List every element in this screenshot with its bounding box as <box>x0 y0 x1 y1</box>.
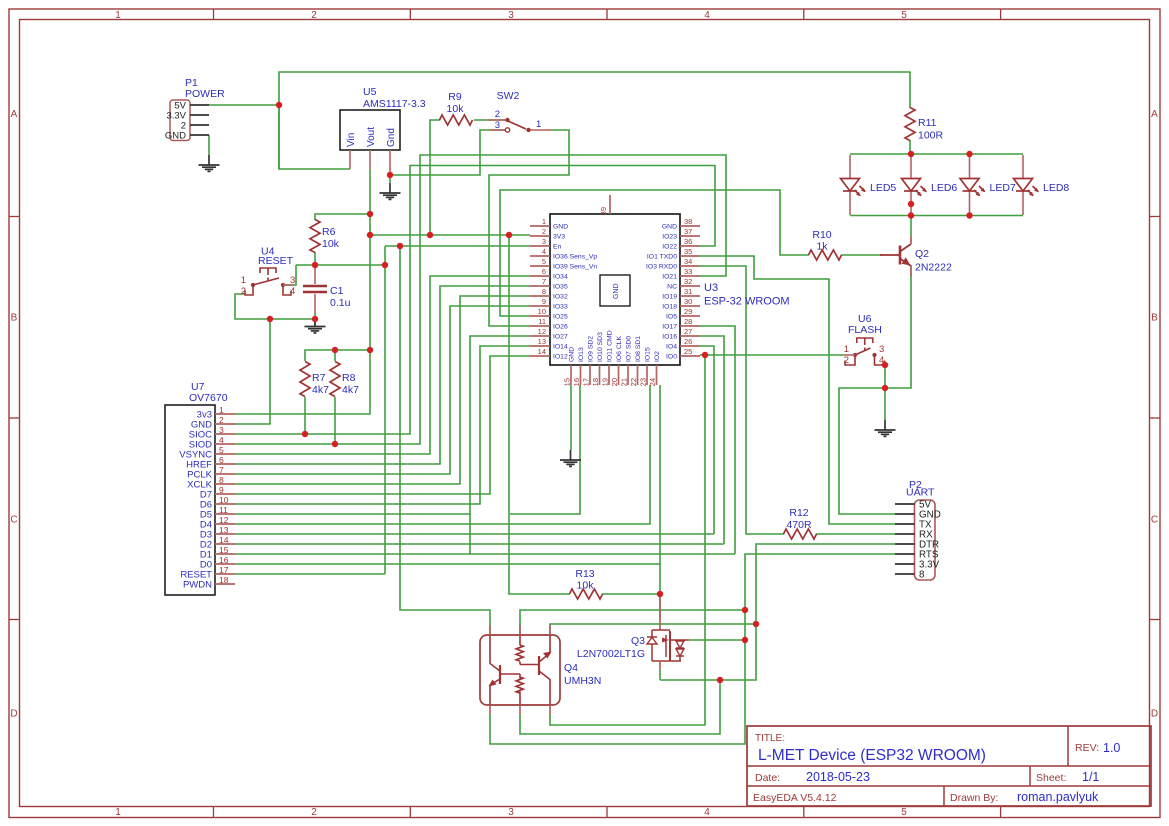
svg-text:30: 30 <box>684 297 692 306</box>
svg-text:3V3: 3V3 <box>553 234 565 241</box>
svg-text:2: 2 <box>311 10 317 21</box>
svg-text:IO9 SD2: IO9 SD2 <box>588 336 595 362</box>
svg-text:B: B <box>11 313 18 324</box>
svg-text:27: 27 <box>684 327 692 336</box>
transistor Q3 L2N7002LT1G <box>577 598 689 670</box>
resistor R9 10k <box>440 91 473 125</box>
svg-text:2: 2 <box>219 415 224 425</box>
wire 5V: P1 pin1 to junction <box>209 104 279 106</box>
svg-text:2N2222: 2N2222 <box>915 262 952 274</box>
wire En riser to Q4 top pin1 <box>400 246 490 635</box>
svg-text:15: 15 <box>563 378 572 386</box>
svg-text:IO21: IO21 <box>662 274 677 281</box>
svg-text:470R: 470R <box>786 519 812 531</box>
svg-text:TITLE:: TITLE: <box>755 733 785 744</box>
svg-text:3: 3 <box>219 425 224 435</box>
svg-text:Gnd: Gnd <box>386 128 397 147</box>
svg-text:SW2: SW2 <box>497 90 520 102</box>
svg-text:13: 13 <box>219 525 229 535</box>
svg-text:1: 1 <box>219 405 224 415</box>
svg-text:23: 23 <box>639 378 648 386</box>
svg-text:IO7 SD0: IO7 SD0 <box>626 336 633 362</box>
svg-text:C: C <box>1151 515 1158 526</box>
svg-text:IO36 Sens_Vp: IO36 Sens_Vp <box>553 254 597 261</box>
svg-text:34: 34 <box>684 257 692 266</box>
svg-text:7: 7 <box>219 465 224 475</box>
svg-text:9: 9 <box>542 297 546 306</box>
svg-text:12: 12 <box>219 515 229 525</box>
svg-text:IO23: IO23 <box>662 234 677 241</box>
svg-text:32: 32 <box>684 277 692 286</box>
capacitor C1 0.1u <box>303 285 351 309</box>
svg-text:1: 1 <box>241 275 246 286</box>
svg-text:1: 1 <box>542 217 546 226</box>
svg-text:4: 4 <box>290 286 295 297</box>
svg-text:R13: R13 <box>575 568 594 580</box>
svg-text:35: 35 <box>684 247 692 256</box>
svg-text:3: 3 <box>508 807 514 818</box>
switch U6 FLASH <box>843 313 885 366</box>
wire U5 Gnd node to SW2 pin3 net y=175 <box>390 130 505 175</box>
connector P1 POWER <box>165 77 225 142</box>
wire U6 pin4 riser to GND node <box>884 365 886 388</box>
svg-text:IO35: IO35 <box>553 284 568 291</box>
wire R9 left riser to 3V3 rail <box>430 120 440 235</box>
svg-text:R12: R12 <box>789 507 808 519</box>
wire RTS branch y=610 to Q4 top pin2 <box>520 610 745 635</box>
svg-text:18: 18 <box>591 378 600 386</box>
svg-text:7: 7 <box>542 277 546 286</box>
wire Q3 gate diodes to RTS riser <box>689 639 745 641</box>
svg-text:IO0: IO0 <box>666 354 677 361</box>
svg-text:IO34: IO34 <box>553 274 568 281</box>
svg-text:1: 1 <box>536 119 541 130</box>
svg-text:B: B <box>1151 313 1158 324</box>
wire D5 to IO27 riser <box>235 513 470 515</box>
wire R10 right lead to Q2 base <box>841 254 882 256</box>
node Vout/R6 top <box>367 211 373 217</box>
node LED bottom rail Q2 <box>908 212 914 218</box>
wire IO27 riser down <box>470 336 530 554</box>
svg-text:100R: 100R <box>918 130 944 142</box>
node IO0 to U6 <box>702 352 708 358</box>
wire C1 bottom lead <box>314 294 316 313</box>
svg-text:3: 3 <box>495 120 500 131</box>
wire DTR branch to Q4 top pin3 <box>550 624 756 635</box>
wire R8 bottom to SIOD <box>334 397 336 444</box>
svg-text:10k: 10k <box>447 103 465 115</box>
wire trunk IO21 to SIOD riser <box>235 155 726 444</box>
wire TXD0 to P2 TX <box>700 256 895 524</box>
wire C1 top lead <box>314 265 316 284</box>
svg-text:GND: GND <box>613 283 620 299</box>
svg-text:16: 16 <box>219 555 229 565</box>
wire U4 pin3 to RC rail <box>283 265 296 285</box>
svg-text:33: 33 <box>684 267 692 276</box>
wire trunk IO22 to SIOC riser <box>235 166 715 435</box>
ground for C1 <box>305 319 326 333</box>
svg-text:GND: GND <box>662 224 677 231</box>
wire Q3 source lead down <box>659 670 661 680</box>
svg-text:IO26: IO26 <box>553 324 568 331</box>
wire XCLK to IO32 <box>235 296 530 484</box>
node R8 top rail <box>332 347 338 353</box>
svg-text:24: 24 <box>648 378 657 386</box>
svg-text:12: 12 <box>538 327 546 336</box>
svg-text:5: 5 <box>901 807 907 818</box>
svg-text:4: 4 <box>219 435 224 445</box>
svg-text:0.1u: 0.1u <box>330 297 351 309</box>
svg-text:Q4: Q4 <box>564 662 578 674</box>
wire R7 R8 top rail <box>305 350 370 361</box>
wire R11 bottom to LED rail <box>909 140 911 154</box>
transistor Q2 2N2222 <box>880 236 952 276</box>
svg-text:4: 4 <box>704 10 710 21</box>
ground for U6/Q2/P2 GND net <box>875 420 896 436</box>
svg-text:IO19: IO19 <box>662 294 677 301</box>
LED6 <box>910 155 912 215</box>
svg-text:36: 36 <box>684 237 692 246</box>
wire Q2 emitter to GND node <box>885 274 911 388</box>
svg-text:29: 29 <box>684 307 692 316</box>
svg-text:IO14: IO14 <box>553 344 568 351</box>
svg-text:4: 4 <box>542 247 546 256</box>
svg-text:5: 5 <box>901 10 907 21</box>
LED5 <box>849 155 851 215</box>
svg-text:C: C <box>10 515 17 526</box>
wire SW2 pin1 to IO26 <box>489 130 569 326</box>
svg-text:3: 3 <box>542 237 546 246</box>
wire D4 to IO15 <box>235 385 650 524</box>
node ground rail U7 GND riser <box>267 316 273 322</box>
LED8 <box>1022 155 1024 215</box>
wire IO4 riser <box>700 346 714 534</box>
svg-text:10: 10 <box>538 307 546 316</box>
svg-text:L-MET Device (ESP32 WROOM): L-MET Device (ESP32 WROOM) <box>758 747 986 764</box>
resistor R11 100R <box>905 108 944 142</box>
connector U7 OV7670 <box>165 381 235 595</box>
svg-text:En: En <box>553 244 562 251</box>
wire PCLK to IO33 <box>235 306 530 474</box>
svg-text:14: 14 <box>219 535 229 545</box>
ground for ESP32 GND pin15 <box>560 450 581 466</box>
svg-text:EasyEDA V5.4.12: EasyEDA V5.4.12 <box>753 792 837 804</box>
svg-text:5: 5 <box>219 445 224 455</box>
svg-text:25: 25 <box>684 347 692 356</box>
svg-text:IO27: IO27 <box>553 334 568 341</box>
wire D3 to IO4 <box>235 533 714 535</box>
wire En riser to RC node rail <box>384 246 386 574</box>
node Q3 gate RTS <box>742 637 748 643</box>
svg-text:RESET: RESET <box>258 255 294 267</box>
wire P2 RTS riser down to Q4 bottom pin1 <box>490 554 895 744</box>
svg-text:GND: GND <box>165 131 186 142</box>
wire VSYNC to IO34 <box>235 276 530 454</box>
svg-text:6: 6 <box>542 267 546 276</box>
svg-text:18: 18 <box>219 575 229 585</box>
svg-text:1/1: 1/1 <box>1082 770 1099 784</box>
svg-text:8: 8 <box>542 287 546 296</box>
svg-text:NC: NC <box>667 284 677 291</box>
wire 3V3 drop to R13 left <box>509 235 570 594</box>
svg-text:1: 1 <box>844 344 849 355</box>
svg-text:D: D <box>10 709 17 720</box>
wire 3V3 rail to ESP32 pin2 <box>370 234 530 236</box>
wire IO17 riser <box>700 326 735 554</box>
svg-text:IO13: IO13 <box>578 347 585 362</box>
wire R6 top to Vout line <box>315 214 370 220</box>
wire R13 right to IO2 node <box>602 593 660 595</box>
node C1 bottom ground <box>312 316 318 322</box>
svg-text:13: 13 <box>538 337 546 346</box>
svg-text:LED7: LED7 <box>990 182 1016 194</box>
wire RXD0 down to R12 left <box>700 266 784 534</box>
svg-text:R8: R8 <box>342 372 356 384</box>
svg-text:LED6: LED6 <box>931 182 957 194</box>
svg-text:R9: R9 <box>448 91 462 103</box>
switch SW2 <box>487 90 552 132</box>
wire R6 bottom to RC rail <box>314 252 316 265</box>
svg-text:IO22: IO22 <box>662 244 677 251</box>
svg-text:R6: R6 <box>322 226 336 238</box>
svg-text:20: 20 <box>610 378 619 386</box>
svg-text:10: 10 <box>219 495 229 505</box>
svg-text:roman.pavlyuk: roman.pavlyuk <box>1017 790 1099 804</box>
svg-text:2: 2 <box>542 227 546 236</box>
svg-text:IO16: IO16 <box>662 334 677 341</box>
svg-text:PWDN: PWDN <box>183 580 212 591</box>
wire GND node to P2 GND <box>839 388 895 514</box>
svg-text:IO18: IO18 <box>662 304 677 311</box>
wire GND node to ground symbol <box>884 388 886 420</box>
node 3V3 rail start <box>367 232 373 238</box>
svg-text:4k7: 4k7 <box>342 384 359 396</box>
node RC rail En riser <box>382 262 388 268</box>
node Q3 source DTR rail <box>717 677 723 683</box>
wire 5V riser and top trunk to R11 <box>279 72 910 169</box>
wire U7 RESET pin17 to En riser <box>235 573 385 575</box>
node En riser junction <box>397 243 403 249</box>
wire IO0 riser down to Q4 <box>550 355 705 725</box>
svg-text:10k: 10k <box>322 238 340 250</box>
resistor R12 470R <box>784 507 817 539</box>
svg-text:2: 2 <box>844 355 849 366</box>
IC U3 ESP-32 WROOM <box>530 195 790 386</box>
svg-text:IO6 CLK: IO6 CLK <box>616 335 623 362</box>
wire U5 Gnd ground stub <box>389 175 391 183</box>
connector P2 UART <box>895 479 941 581</box>
svg-text:U3: U3 <box>704 282 718 294</box>
node 3V3 to R13 drop <box>506 232 512 238</box>
svg-text:2: 2 <box>241 286 246 297</box>
svg-text:Q2: Q2 <box>915 248 929 260</box>
svg-text:IO15: IO15 <box>645 347 652 362</box>
svg-text:IO2: IO2 <box>654 351 661 362</box>
svg-text:AMS1117-3.3: AMS1117-3.3 <box>363 98 426 110</box>
svg-text:IO12: IO12 <box>553 354 568 361</box>
resistor R8 4k7 <box>330 362 359 397</box>
wire LED bottom rail <box>850 215 1023 217</box>
svg-text:D: D <box>1151 709 1158 720</box>
node LED top rail R11 <box>908 151 914 157</box>
svg-text:Vin: Vin <box>346 133 357 147</box>
svg-text:2: 2 <box>495 109 500 120</box>
wire R12 right to P2 RX <box>816 533 895 535</box>
svg-text:14: 14 <box>538 347 546 356</box>
wire IO13 to R13 node <box>510 385 580 514</box>
LED7 <box>969 155 971 215</box>
svg-text:A: A <box>11 109 18 120</box>
wire IO0 to U6 pin1 <box>700 354 843 356</box>
svg-text:OV7670: OV7670 <box>189 392 228 404</box>
svg-text:1.0: 1.0 <box>1103 741 1120 755</box>
svg-text:16: 16 <box>572 378 581 386</box>
wire U7 GND pin2 riser <box>235 319 270 424</box>
svg-text:2018-05-23: 2018-05-23 <box>806 770 870 784</box>
svg-text:8: 8 <box>919 570 925 581</box>
svg-text:U5: U5 <box>363 86 377 98</box>
wire En rail to ESP32 pin3 <box>385 245 530 247</box>
svg-text:21: 21 <box>620 378 629 386</box>
wire Q2 collector riser <box>910 216 912 237</box>
svg-text:IO39 Sens_Vn: IO39 Sens_Vn <box>553 264 597 271</box>
svg-text:11: 11 <box>538 317 546 326</box>
svg-text:LED8: LED8 <box>1043 182 1069 194</box>
svg-text:IO1 TXD0: IO1 TXD0 <box>647 254 677 261</box>
svg-text:3: 3 <box>290 275 295 286</box>
resistor R13 10k <box>570 568 603 599</box>
wire P1 GND pin to ground <box>208 135 210 155</box>
ground for U5 <box>380 183 401 199</box>
resistor R7 4k7 <box>300 362 329 397</box>
transistor array Q4 UMH3N <box>480 625 601 714</box>
node RC rail C1/R6 <box>312 262 318 268</box>
svg-text:IO11 CMD: IO11 CMD <box>607 330 614 362</box>
svg-text:IO25: IO25 <box>553 314 568 321</box>
svg-text:UMH3N: UMH3N <box>564 675 601 687</box>
wire 3.3V: U5 Vout down to U7 pin1 3v3 <box>235 169 370 414</box>
wire IO16 riser <box>700 336 724 544</box>
svg-text:6: 6 <box>219 455 224 465</box>
node RTS En line <box>742 607 748 613</box>
node 5V junction at P1 <box>276 102 282 108</box>
svg-text:39: 39 <box>599 207 608 215</box>
node R7 to SIOC <box>302 431 308 437</box>
regulator U5 AMS1117-3.3 <box>340 86 426 172</box>
svg-text:28: 28 <box>684 317 692 326</box>
wire D6 to IO14 <box>235 346 530 504</box>
wire HREF to IO35 <box>235 286 530 464</box>
svg-text:IO17: IO17 <box>662 324 677 331</box>
svg-text:3: 3 <box>879 344 884 355</box>
svg-text:4k7: 4k7 <box>312 384 329 396</box>
node LED bottom rail LED7 <box>966 212 972 218</box>
svg-text:REV:: REV: <box>1075 742 1099 754</box>
svg-text:10k: 10k <box>577 580 595 592</box>
wire R7 bottom to SIOC <box>304 397 306 434</box>
node R7R8 rail to 3.3V <box>367 347 373 353</box>
svg-text:IO10 SD3: IO10 SD3 <box>597 332 604 362</box>
resistor R10 1k <box>809 229 842 260</box>
wire R8 top riser <box>334 350 336 361</box>
wire ESP32 pin15 GND to ground <box>570 385 572 450</box>
svg-text:22: 22 <box>629 378 638 386</box>
switch U4 RESET <box>241 246 296 298</box>
svg-text:C1: C1 <box>330 285 344 297</box>
svg-text:Sheet:: Sheet: <box>1036 772 1066 784</box>
wire D7 to IO12 <box>235 356 530 494</box>
svg-text:4: 4 <box>704 807 710 818</box>
svg-text:9: 9 <box>219 485 224 495</box>
svg-text:1: 1 <box>115 10 121 21</box>
svg-text:37: 37 <box>684 227 692 236</box>
node U6 pin4 <box>882 362 888 368</box>
svg-text:IO3 RXD0: IO3 RXD0 <box>646 264 677 271</box>
title block <box>747 726 1151 806</box>
svg-text:5: 5 <box>542 257 546 266</box>
wire IO2 down to R13 node and Q3 drain <box>659 385 661 620</box>
svg-text:Q3: Q3 <box>631 635 645 647</box>
wire 5V junction down to U5 Vin <box>279 105 350 169</box>
svg-text:A: A <box>1151 109 1158 120</box>
wire C1 ground stub <box>314 319 316 326</box>
node R9 to 3V3 rail <box>427 232 433 238</box>
node GND emitter junction <box>882 385 888 391</box>
wire RC node rail y=265 <box>296 264 385 266</box>
svg-text:15: 15 <box>219 545 229 555</box>
node U5 Gnd <box>387 172 393 178</box>
svg-text:LED5: LED5 <box>870 182 896 194</box>
svg-text:IO33: IO33 <box>553 304 568 311</box>
svg-text:ESP-32 WROOM: ESP-32 WROOM <box>704 296 790 308</box>
wire D2 to IO16 <box>235 543 724 545</box>
wire Q3 bottom junction riser to Q4 bottom pin2 loop <box>520 680 720 734</box>
svg-text:R11: R11 <box>918 117 937 129</box>
wire IO25 to R10 to Q2 base <box>500 190 809 316</box>
wire P2 DTR riser down to Q3/Q4 <box>660 544 895 680</box>
svg-text:17: 17 <box>219 565 229 575</box>
svg-text:IO32: IO32 <box>553 294 568 301</box>
svg-text:FLASH: FLASH <box>848 324 882 336</box>
node R13 right IO2 <box>657 591 663 597</box>
svg-text:Vout: Vout <box>366 127 377 147</box>
svg-text:26: 26 <box>684 337 692 346</box>
svg-text:1k: 1k <box>816 241 828 253</box>
wire LED top rail <box>850 153 1023 155</box>
svg-text:GND: GND <box>553 224 568 231</box>
node DTR branch <box>753 621 759 627</box>
svg-text:POWER: POWER <box>185 88 225 100</box>
node R8 to SIOD <box>332 441 338 447</box>
svg-text:31: 31 <box>684 287 692 296</box>
svg-text:19: 19 <box>601 378 610 386</box>
svg-text:IO5: IO5 <box>666 314 677 321</box>
wire R9 right to SW2 pin2 <box>474 119 505 121</box>
node LED top rail LED7 <box>966 151 972 157</box>
svg-text:UART: UART <box>906 487 935 499</box>
svg-text:Date:: Date: <box>755 772 780 784</box>
svg-text:17: 17 <box>582 378 591 386</box>
svg-text:3: 3 <box>508 10 514 21</box>
node LED6 cathode <box>908 201 914 207</box>
wire U4 pin2 to ground rail <box>235 294 315 319</box>
svg-text:38: 38 <box>684 217 692 226</box>
svg-text:11: 11 <box>219 505 228 515</box>
ground for P1 <box>199 155 220 171</box>
svg-text:GND: GND <box>569 347 576 362</box>
resistor R6 10k <box>310 220 340 253</box>
svg-text:L2N7002LT1G: L2N7002LT1G <box>577 648 645 660</box>
